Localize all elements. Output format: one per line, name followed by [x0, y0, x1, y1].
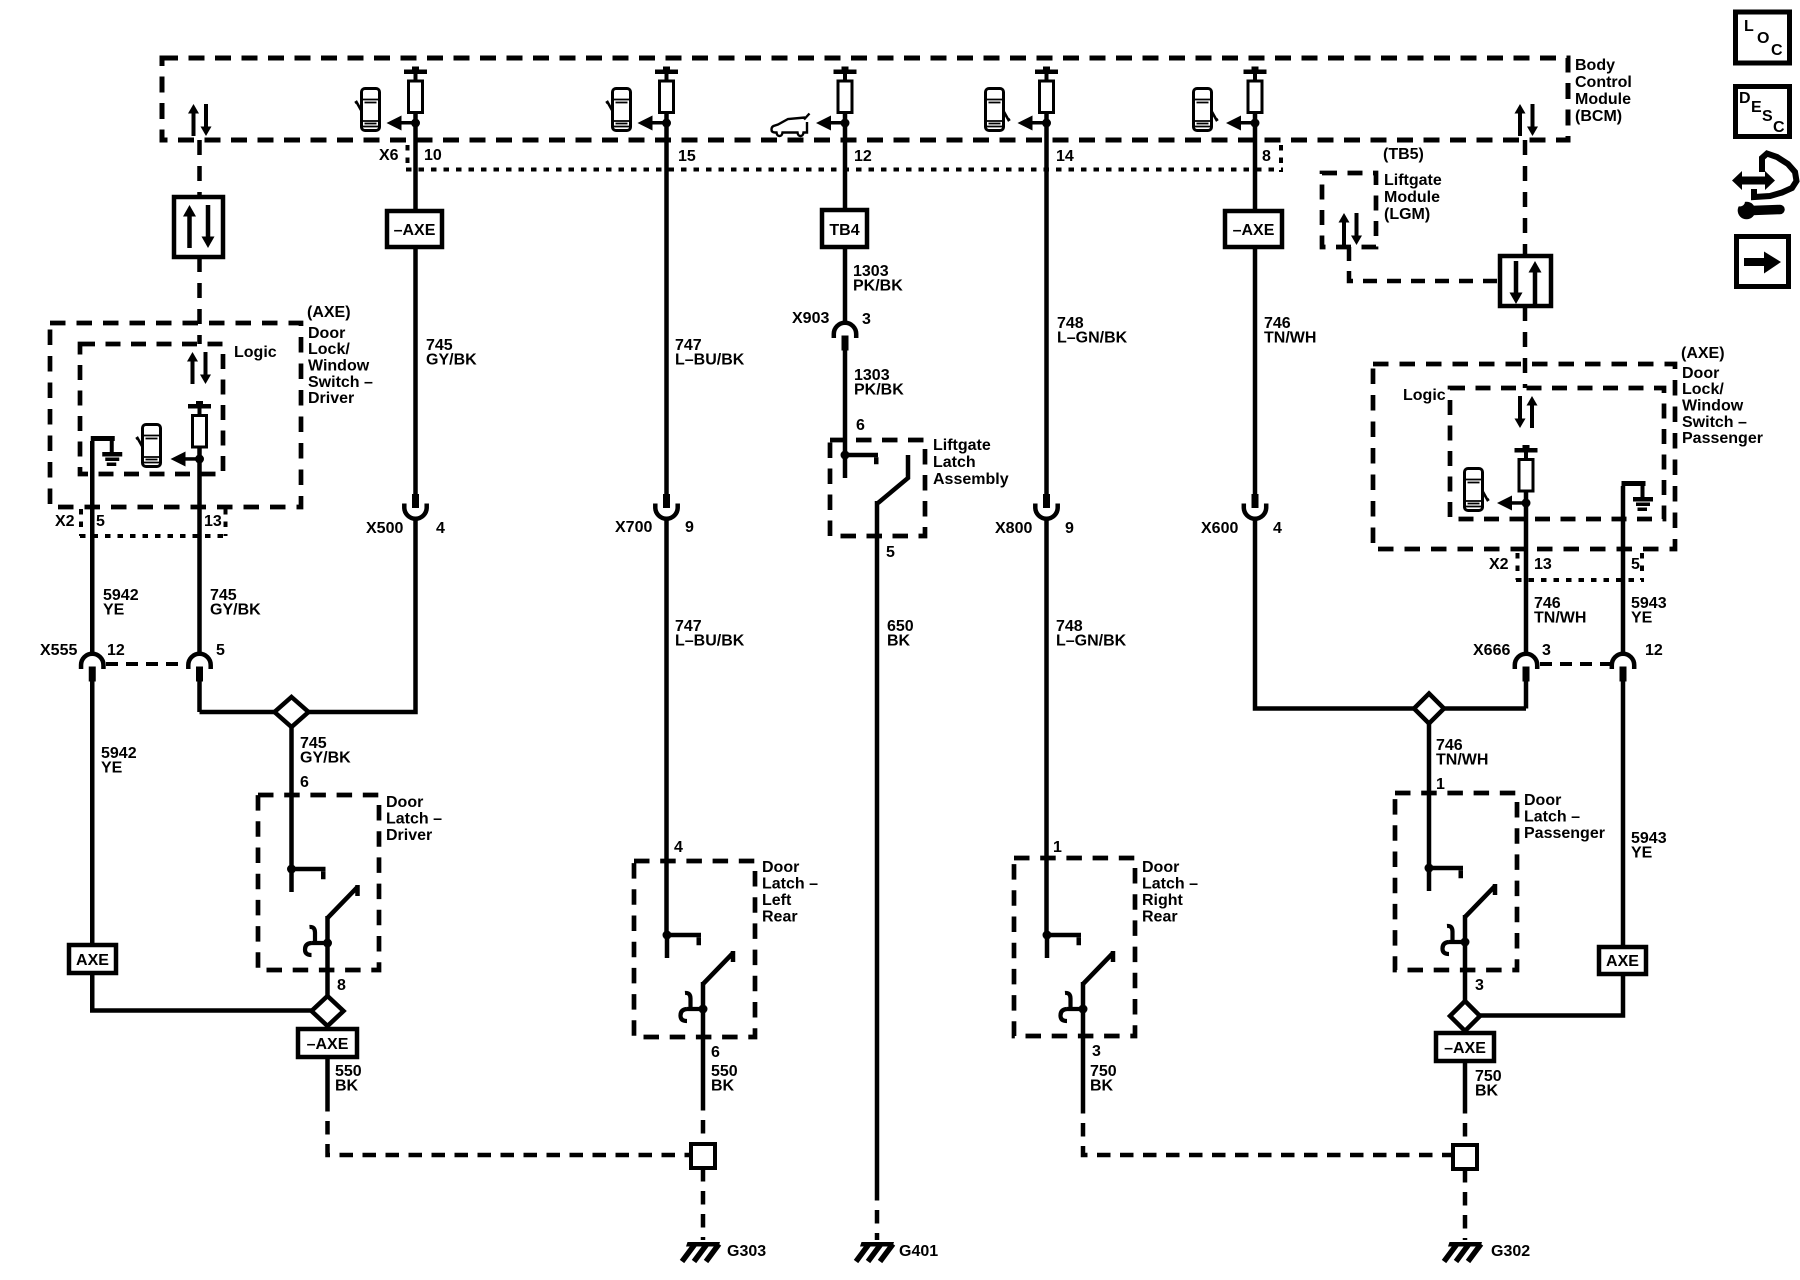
- svg-text:YE: YE: [103, 602, 125, 619]
- boxed up/down arrows (driver control): [174, 197, 223, 257]
- wire label 748 L-GN/BK (upper): [1057, 315, 1128, 347]
- svg-text:X6: X6: [379, 147, 399, 164]
- svg-text:Latch –: Latch –: [386, 811, 442, 828]
- driver logic earth ground: [91, 436, 123, 466]
- pin 15: [678, 148, 696, 165]
- dashed ground wire passenger to splice box: [1463, 1100, 1468, 1145]
- wire label 746 TN/WH (switch output): [1534, 595, 1586, 627]
- splice diamond (746): [1414, 694, 1444, 724]
- svg-text:BK: BK: [1475, 1083, 1499, 1100]
- svg-text:X2: X2: [55, 513, 75, 530]
- svg-text:D: D: [1739, 90, 1751, 107]
- svg-text:13: 13: [1534, 556, 1552, 573]
- ground G302: [1444, 1242, 1482, 1262]
- svg-text:Switch –: Switch –: [1682, 414, 1747, 431]
- svg-text:Window: Window: [308, 358, 370, 375]
- svg-text:6: 6: [856, 417, 865, 434]
- svg-text:Door: Door: [1142, 859, 1179, 876]
- label X6: [379, 147, 399, 164]
- svg-text:L–BU/BK: L–BU/BK: [675, 633, 745, 650]
- wire label 748 L-GN/BK (lower): [1056, 618, 1127, 650]
- module Door Lock/Window Switch - Driver outer box: [50, 323, 301, 507]
- svg-text:AXE: AXE: [1606, 953, 1639, 970]
- svg-text:TN/WH: TN/WH: [1436, 752, 1488, 769]
- liftgate latch switch: [841, 451, 909, 504]
- BCM driver resistor (pin 10 driver): [404, 67, 427, 113]
- pin 4 (X500): [436, 520, 445, 537]
- svg-text:Passenger: Passenger: [1524, 825, 1605, 842]
- wire label 747 L-BU/BK (lower): [675, 618, 745, 650]
- svg-text:X800: X800: [995, 520, 1032, 537]
- module Door Latch - Right Rear box: [1014, 858, 1135, 1036]
- svg-text:G401: G401: [899, 1243, 938, 1260]
- wire passenger ground to X2-5: [1621, 486, 1626, 653]
- svg-text:E: E: [1751, 99, 1762, 116]
- legend box right arrow: [1737, 237, 1789, 287]
- dashed control wire to passenger logic: [1523, 306, 1528, 388]
- svg-text:12: 12: [854, 148, 872, 165]
- label Door Latch - Right Rear: [1142, 859, 1198, 926]
- label Liftgate Latch Assembly: [933, 437, 1009, 488]
- fuse box -AXE (driver latch out): [298, 1029, 357, 1057]
- svg-text:8: 8: [1262, 148, 1271, 165]
- fuse box AXE (passenger): [1599, 947, 1646, 974]
- passenger logic resistor: [1515, 445, 1538, 491]
- BCM car icon (pin 8 passenger): [1194, 89, 1219, 131]
- svg-text:Door: Door: [762, 859, 799, 876]
- svg-text:9: 9: [1065, 520, 1074, 537]
- svg-text:5: 5: [96, 513, 105, 530]
- pin 12: [854, 148, 872, 165]
- module Liftgate Module (LGM) box: [1322, 173, 1376, 247]
- label X555: [40, 642, 77, 659]
- svg-text:8: 8: [337, 977, 346, 994]
- svg-text:TB4: TB4: [829, 222, 859, 239]
- wire label 550 BK (driver): [335, 1063, 362, 1095]
- svg-text:9: 9: [685, 519, 694, 536]
- svg-text:Latch: Latch: [933, 454, 976, 471]
- BCM liftgate SUV icon: [772, 114, 810, 137]
- connector X700: [655, 494, 677, 519]
- label Body Control Module (BCM): [1575, 57, 1632, 125]
- wire passenger latch to splice: [1463, 942, 1468, 1001]
- svg-text:Liftgate: Liftgate: [933, 437, 991, 454]
- wire X800 to right rear latch: [1044, 518, 1049, 935]
- label G302: [1491, 1243, 1530, 1260]
- label (TB5): [1383, 146, 1424, 163]
- fuse box -AXE (passenger latch out): [1436, 1033, 1494, 1061]
- svg-text:Logic: Logic: [234, 344, 277, 361]
- module Liftgate Latch Assembly box: [830, 440, 925, 536]
- pin 1 (right rear latch in): [1053, 839, 1062, 856]
- svg-text:Right: Right: [1142, 892, 1184, 909]
- svg-text:AXE: AXE: [76, 952, 109, 969]
- svg-text:Assembly: Assembly: [933, 471, 1009, 488]
- svg-text:Door: Door: [1682, 365, 1719, 382]
- svg-text:–AXE: –AXE: [1444, 1040, 1486, 1057]
- svg-text:O: O: [1757, 30, 1769, 47]
- svg-text:Latch –: Latch –: [1142, 876, 1198, 893]
- splice diamond (driver latch out): [312, 996, 344, 1026]
- connector X666 pin 12: [1612, 654, 1634, 682]
- boxed up/down arrows (passenger control): [1500, 256, 1551, 306]
- svg-text:X700: X700: [615, 519, 652, 536]
- label X700: [615, 519, 652, 536]
- svg-text:(AXE): (AXE): [1681, 345, 1725, 362]
- svg-text:Rear: Rear: [1142, 909, 1178, 926]
- svg-text:3: 3: [1092, 1043, 1101, 1060]
- BCM internal up/down arrows left: [188, 104, 212, 136]
- pin 12 (X555): [107, 642, 125, 659]
- svg-text:4: 4: [674, 839, 683, 856]
- label X903: [792, 310, 829, 327]
- BCM car icon (pin 15 left rear): [606, 89, 631, 131]
- BCM output arrow to car (pin 8 passenger): [1226, 116, 1260, 131]
- dashed control wire to driver logic: [197, 257, 202, 344]
- pin 5 (liftgate latch out): [886, 544, 895, 561]
- wire splice to driver latch: [289, 712, 294, 869]
- connector X555 pin 12: [81, 654, 103, 682]
- module BCM box: [162, 58, 1568, 140]
- dashed control wire BCM to passenger boxed arrows: [1523, 140, 1528, 256]
- pin 12 (X666): [1645, 642, 1663, 659]
- pin 8 (driver latch out): [337, 977, 346, 994]
- wire 745 from BCM pin 10: [413, 113, 418, 212]
- pin 5 (X555): [216, 642, 225, 659]
- pin 5 (X2 driver): [96, 513, 105, 530]
- splice diamond (745): [275, 697, 309, 727]
- pin 9 (X800): [1065, 520, 1074, 537]
- svg-text:–AXE: –AXE: [1233, 222, 1275, 239]
- pin 1 (passenger latch in): [1436, 776, 1445, 793]
- svg-text:3: 3: [1475, 977, 1484, 994]
- svg-text:L: L: [1744, 18, 1754, 35]
- ground G401: [856, 1242, 894, 1262]
- svg-text:Module: Module: [1384, 189, 1440, 206]
- label X600: [1201, 520, 1238, 537]
- BCM output arrow to car (pin 10 driver): [387, 116, 421, 131]
- label G401: [899, 1243, 938, 1260]
- svg-text:14: 14: [1056, 148, 1074, 165]
- BCM driver resistor (pin 8 passenger): [1244, 67, 1267, 113]
- legend box DESC: [1736, 87, 1790, 137]
- svg-text:C: C: [1771, 42, 1783, 59]
- svg-text:Lock/: Lock/: [1682, 381, 1724, 398]
- svg-text:Rear: Rear: [762, 909, 798, 926]
- BCM car icon (pin 10 driver): [355, 89, 380, 131]
- label X2 (driver): [55, 513, 75, 530]
- wire -AXE solid stub: [325, 1057, 330, 1098]
- pin 4 (X600): [1273, 520, 1282, 537]
- right rear latch switch: [1043, 931, 1114, 1022]
- label X666: [1473, 642, 1510, 659]
- ground G303: [682, 1242, 720, 1262]
- wire 746 from BCM pin 8: [1253, 113, 1258, 212]
- pin 3 (X666): [1542, 642, 1551, 659]
- wire -AXE passenger solid stub: [1463, 1061, 1468, 1100]
- label Liftgate Module (LGM): [1384, 172, 1442, 223]
- wire driver latch to splice: [325, 943, 330, 997]
- splice diamond (passenger latch out): [1450, 1001, 1480, 1031]
- svg-text:GY/BK: GY/BK: [426, 352, 477, 369]
- svg-text:G302: G302: [1491, 1243, 1530, 1260]
- label Logic (passenger): [1403, 387, 1446, 404]
- wire label 5943 YE (upper): [1631, 595, 1667, 627]
- svg-text:12: 12: [1645, 642, 1663, 659]
- wire X903 to liftgate latch: [843, 350, 848, 455]
- pin 6 (driver latch in): [300, 774, 309, 791]
- BCM driver resistor (pin 14 right rear): [1035, 67, 1058, 113]
- wire X666-12 down to AXE: [1621, 681, 1626, 947]
- fuse box AXE (driver): [69, 945, 116, 973]
- BCM driver resistor (pin 15 left rear): [655, 67, 678, 113]
- wire label 5942 YE (lower): [101, 745, 137, 777]
- wire label 746 TN/WH (upper): [1264, 315, 1316, 347]
- wire -AXE to X600: [1253, 247, 1258, 494]
- svg-text:X903: X903: [792, 310, 829, 327]
- BCM output arrow to car (pin 14 right rear): [1018, 116, 1052, 131]
- passenger logic up/down arrows: [1515, 396, 1538, 428]
- svg-text:X2: X2: [1489, 556, 1509, 573]
- module Door Lock/Window Switch - Passenger outer box: [1373, 364, 1675, 549]
- connector X600: [1244, 494, 1266, 519]
- module Door Latch - Driver box: [258, 795, 379, 970]
- wire X700 to left rear latch: [664, 518, 669, 935]
- svg-text:Body: Body: [1575, 57, 1615, 74]
- dashed ground wire to splice box G303: [701, 1097, 706, 1144]
- wire label 5942 YE (upper): [103, 587, 139, 619]
- passenger logic arrow to car: [1497, 496, 1531, 511]
- wire label 750 BK (passenger): [1475, 1068, 1502, 1100]
- pin 13 (X2 passenger): [1534, 556, 1552, 573]
- wire X555-12 down to AXE: [90, 681, 95, 945]
- svg-text:G303: G303: [727, 1243, 766, 1260]
- svg-text:5: 5: [1631, 556, 1640, 573]
- driver latch switch: [287, 865, 358, 956]
- svg-text:Logic: Logic: [1403, 387, 1446, 404]
- pin 6 (liftgate latch in): [856, 417, 865, 434]
- label Door Latch - Left Rear: [762, 859, 818, 926]
- svg-text:Module: Module: [1575, 91, 1631, 108]
- wire TB4 to X903: [843, 247, 848, 324]
- wire label 750 BK (right rear): [1090, 1063, 1117, 1095]
- svg-text:(TB5): (TB5): [1383, 146, 1424, 163]
- svg-text:C: C: [1773, 119, 1785, 136]
- connector X500: [404, 494, 426, 519]
- driver Logic box: [80, 344, 223, 474]
- label Logic (driver): [234, 344, 277, 361]
- wire 747 from BCM pin 15: [664, 113, 669, 495]
- driver logic arrow to car: [171, 452, 205, 467]
- svg-text:BK: BK: [1090, 1078, 1114, 1095]
- wire label 1303 PK/BK (upper): [853, 263, 903, 295]
- connector X555 dotted link: [106, 662, 186, 666]
- svg-text:Latch –: Latch –: [762, 876, 818, 893]
- svg-text:5: 5: [216, 642, 225, 659]
- pin 4 (left rear latch in): [674, 839, 683, 856]
- wire driver resistor to X2-13: [197, 447, 202, 653]
- legend box LOC: [1736, 12, 1790, 63]
- svg-text:YE: YE: [101, 760, 123, 777]
- svg-text:13: 13: [204, 513, 222, 530]
- svg-text:BK: BK: [887, 633, 911, 650]
- BCM internal up/down arrows right: [1515, 104, 1539, 136]
- svg-text:PK/BK: PK/BK: [854, 382, 904, 399]
- connector X6 bracket left: [406, 145, 410, 168]
- dashed wire splice to G303: [701, 1168, 706, 1240]
- svg-text:1: 1: [1436, 776, 1445, 793]
- svg-text:15: 15: [678, 148, 696, 165]
- connector X6 bracket right: [1279, 145, 1283, 172]
- svg-text:BK: BK: [711, 1078, 735, 1095]
- passenger logic earth ground: [1622, 481, 1654, 511]
- connector X666 pin 3: [1515, 654, 1537, 682]
- wire AXE passenger to splice diamond: [1479, 974, 1623, 1016]
- svg-text:X500: X500: [366, 520, 403, 537]
- wire label 745 GY/BK (switch output): [210, 587, 261, 619]
- svg-text:1: 1: [1053, 839, 1062, 856]
- svg-text:BK: BK: [335, 1078, 359, 1095]
- pin 6 (left rear latch out): [711, 1044, 720, 1061]
- pin 3 (right rear latch out): [1092, 1043, 1101, 1060]
- pin 3 (X903): [862, 311, 871, 328]
- wire AXE to splice diamond: [92, 973, 312, 1011]
- driver logic up/down arrows: [187, 352, 211, 384]
- svg-text:Switch –: Switch –: [308, 374, 373, 391]
- svg-text:L–BU/BK: L–BU/BK: [675, 352, 745, 369]
- svg-text:GY/BK: GY/BK: [300, 750, 351, 767]
- module Door Latch - Passenger box: [1395, 793, 1517, 970]
- dashed control wire BCM to driver boxed arrows: [197, 140, 202, 197]
- dashed wire splice to G302: [1463, 1169, 1468, 1240]
- fuse box -AXE (745): [387, 211, 442, 247]
- label X2 (passenger): [1489, 556, 1509, 573]
- svg-text:X600: X600: [1201, 520, 1238, 537]
- pin 3 (passenger latch out): [1475, 977, 1484, 994]
- svg-text:–AXE: –AXE: [394, 222, 436, 239]
- svg-text:Left: Left: [762, 892, 792, 909]
- svg-text:Lock/: Lock/: [308, 341, 350, 358]
- label (AXE) Door Lock/Window Switch - Driver: [307, 304, 373, 407]
- pin 13 (X2 driver): [204, 513, 222, 530]
- connector X6 dotted line: [406, 168, 1283, 172]
- svg-text:YE: YE: [1631, 845, 1653, 862]
- svg-text:L–GN/BK: L–GN/BK: [1057, 330, 1128, 347]
- svg-text:Door: Door: [386, 794, 423, 811]
- svg-text:(BCM): (BCM): [1575, 108, 1622, 125]
- BCM output arrow to liftgate (pin 12): [816, 116, 850, 131]
- dashed wire LGM to boxed arrows: [1349, 247, 1500, 281]
- wire label 650 BK: [887, 618, 914, 650]
- wire label 550 BK (left rear): [711, 1063, 738, 1095]
- pin 14: [1056, 148, 1074, 165]
- svg-text:Passenger: Passenger: [1682, 430, 1763, 447]
- splice box (G303): [691, 1144, 715, 1168]
- wire driver ground to X2-5: [90, 441, 95, 653]
- wire 748 from BCM pin 14: [1044, 113, 1049, 495]
- svg-text:5: 5: [886, 544, 895, 561]
- connector X555 pin 5: [188, 654, 210, 682]
- BCM driver resistor (pin 12 liftgate): [834, 67, 857, 113]
- pin 9 (X700): [685, 519, 694, 536]
- svg-text:YE: YE: [1631, 610, 1653, 627]
- wire -AXE to X500: [413, 247, 418, 494]
- svg-text:(AXE): (AXE): [307, 304, 351, 321]
- svg-text:4: 4: [1273, 520, 1282, 537]
- wire label 745 GY/BK (to latch): [300, 735, 351, 767]
- connector X903: [834, 323, 856, 351]
- svg-text:TN/WH: TN/WH: [1534, 610, 1586, 627]
- label (AXE) Door Lock/Window Switch - Passenger: [1681, 345, 1763, 447]
- connector X666 dotted link: [1540, 662, 1610, 666]
- wire label 747 L-BU/BK (upper): [675, 337, 745, 369]
- driver logic car icon: [136, 425, 161, 467]
- label G303: [727, 1243, 766, 1260]
- svg-text:10: 10: [424, 147, 442, 164]
- BCM car icon (pin 14 right rear): [986, 89, 1011, 131]
- svg-text:4: 4: [436, 520, 445, 537]
- wire label 1303 PK/BK (lower): [854, 367, 904, 399]
- wire X500 down and left to splice: [200, 518, 416, 712]
- splice box (G302): [1453, 1145, 1477, 1169]
- connector X2 (passenger) dotted brackets: [1516, 553, 1644, 580]
- svg-text:PK/BK: PK/BK: [853, 278, 903, 295]
- svg-text:Liftgate: Liftgate: [1384, 172, 1442, 189]
- wire X666-3 down to splice line: [1524, 681, 1529, 709]
- svg-text:3: 3: [862, 311, 871, 328]
- wire passenger resistor to X2-13: [1524, 491, 1529, 653]
- svg-text:GY/BK: GY/BK: [210, 602, 261, 619]
- svg-text:6: 6: [711, 1044, 720, 1061]
- svg-text:12: 12: [107, 642, 125, 659]
- LGM up/down arrows: [1339, 213, 1363, 245]
- wire label 5943 YE (lower): [1631, 830, 1667, 862]
- wire X555-5 down to splice line: [197, 681, 202, 712]
- wire left rear latch down: [701, 1009, 706, 1097]
- pin 8: [1262, 148, 1271, 165]
- svg-text:S: S: [1762, 108, 1773, 125]
- passenger latch switch: [1425, 864, 1496, 955]
- svg-text:TN/WH: TN/WH: [1264, 330, 1316, 347]
- svg-text:6: 6: [300, 774, 309, 791]
- svg-text:(LGM): (LGM): [1384, 206, 1430, 223]
- pin 10: [424, 147, 442, 164]
- connector X800: [1035, 494, 1057, 519]
- svg-text:Latch –: Latch –: [1524, 809, 1580, 826]
- svg-text:L–GN/BK: L–GN/BK: [1056, 633, 1127, 650]
- wire 1303 from BCM pin 12: [843, 113, 848, 211]
- svg-text:Driver: Driver: [308, 390, 354, 407]
- dashed ground wire driver to splice box: [328, 1098, 692, 1155]
- wire label 746 TN/WH (to latch): [1436, 737, 1488, 769]
- svg-text:Control: Control: [1575, 74, 1632, 91]
- left rear latch switch: [663, 931, 734, 1022]
- module Door Latch - Left Rear box: [634, 861, 755, 1037]
- connector X2 (driver) dotted brackets: [80, 509, 227, 536]
- pin 5 (X2 passenger): [1631, 556, 1640, 573]
- svg-text:X555: X555: [40, 642, 77, 659]
- label X500: [366, 520, 403, 537]
- dashed wire to G401: [875, 1187, 880, 1240]
- svg-text:X666: X666: [1473, 642, 1510, 659]
- svg-text:Door: Door: [308, 325, 345, 342]
- legend icon route arrow with wrench: [1732, 154, 1797, 220]
- svg-text:Window: Window: [1682, 398, 1744, 415]
- wire splice to passenger latch: [1427, 709, 1432, 869]
- wire label 745 GY/BK (upper): [426, 337, 477, 369]
- driver logic resistor: [188, 401, 211, 447]
- wire liftgate latch to G401: [875, 501, 880, 1187]
